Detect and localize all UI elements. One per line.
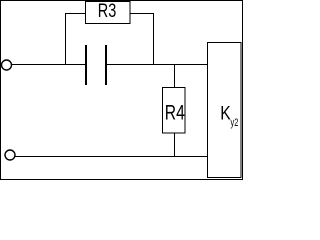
svg-text:y2: y2 [231, 117, 239, 129]
svg-text:R3: R3 [98, 1, 117, 22]
svg-text:R4: R4 [165, 101, 185, 124]
svg-text:K: K [220, 103, 231, 124]
